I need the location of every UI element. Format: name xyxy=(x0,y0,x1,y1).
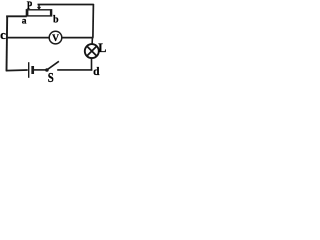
wire bottom run middle segment (battery to switch pivot) xyxy=(34,69,46,71)
battery long plate xyxy=(28,62,30,78)
lamp L cross stroke 2 xyxy=(87,46,97,56)
wire voltmeter branch right (voltmeter to lamp wire junction) xyxy=(62,37,94,39)
label P (slider) xyxy=(27,0,33,12)
battery short plate xyxy=(31,66,34,74)
voltmeter V letter xyxy=(52,34,59,44)
svg-text:b: b xyxy=(53,15,59,26)
node d label xyxy=(93,66,100,78)
wire from lamp bottom down to bottom-right corner xyxy=(91,58,93,71)
node c label xyxy=(0,27,6,42)
svg-text:P: P xyxy=(27,0,33,12)
voltmeter V circle xyxy=(49,31,62,44)
lamp L cross stroke 1 xyxy=(87,46,97,56)
wire right vertical from junction down to lamp top xyxy=(91,38,93,45)
rheostat box right end wall (thickened) xyxy=(50,10,52,17)
label b (rheostat right terminal) xyxy=(53,15,59,26)
rheostat slider arrowhead xyxy=(37,7,41,10)
wire voltmeter branch left (node c to voltmeter) xyxy=(7,37,50,39)
rheostat slider stem xyxy=(38,4,40,7)
label L (lamp) xyxy=(98,41,106,55)
svg-text:c: c xyxy=(0,27,6,42)
wire left vertical xyxy=(6,16,9,72)
resistor R rheostat box xyxy=(26,10,51,16)
wire bottom run right segment (switch to lamp corner) xyxy=(57,69,92,71)
svg-text:V: V xyxy=(52,34,59,44)
rheostat box left end wall (thickened) xyxy=(26,10,28,17)
svg-text:S: S xyxy=(48,70,54,85)
wire from left vertical to rheostat terminal a xyxy=(6,15,27,17)
wire right vertical from top corner down to voltmeter junction xyxy=(92,4,95,38)
lamp L circle xyxy=(85,44,99,58)
wire top run from slider to top-right corner xyxy=(38,4,94,6)
switch S pivot dot xyxy=(45,68,49,72)
switch S lever xyxy=(47,61,59,69)
wire bottom run left segment (left corner to battery) xyxy=(6,69,28,72)
label S (switch) xyxy=(48,70,54,85)
svg-text:a: a xyxy=(22,17,27,27)
label a (rheostat left terminal) xyxy=(22,17,27,27)
svg-text:L: L xyxy=(98,41,106,55)
svg-text:d: d xyxy=(93,66,100,78)
